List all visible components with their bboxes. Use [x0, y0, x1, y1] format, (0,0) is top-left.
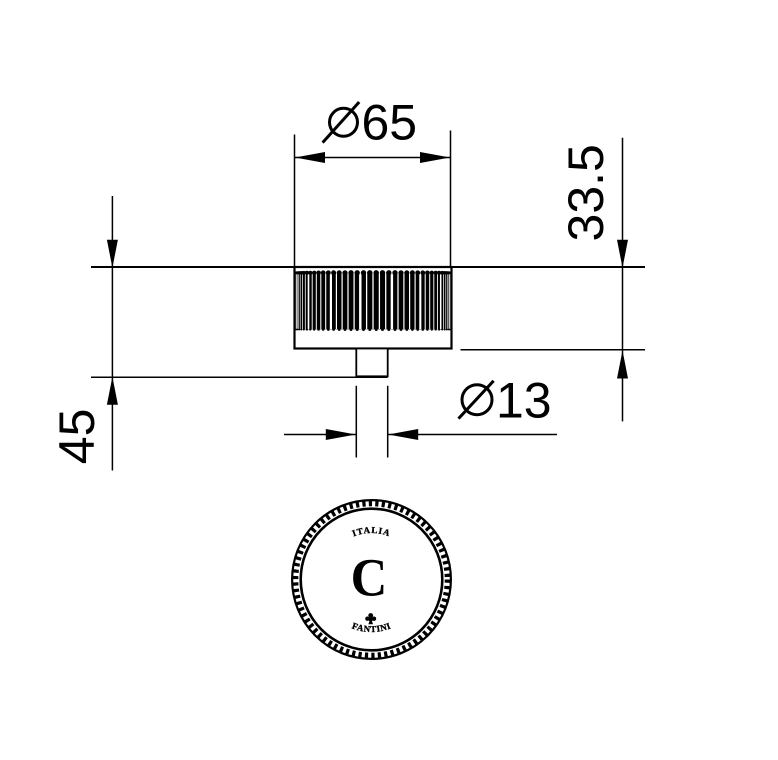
diameter symbol for 13 — [459, 381, 494, 419]
svg-text:33.5: 33.5 — [558, 144, 614, 241]
dimension 13 line right part — [388, 429, 557, 440]
dimension 45 line — [107, 196, 118, 471]
logo text ITALIA (arched top) — [350, 525, 394, 539]
dimension 33.5 line — [617, 138, 628, 422]
logo text FANTINI (arched bottom) — [345, 621, 398, 635]
extension line right for 65 — [450, 131, 452, 268]
bottom view knurl teeth ring — [296, 504, 448, 656]
cap body outline (side view) — [295, 267, 452, 349]
dimension 13 line left part — [284, 429, 356, 440]
extension line right for 13 — [387, 386, 389, 458]
dimension 65 line — [295, 152, 451, 163]
diameter symbol for 65 — [323, 102, 360, 143]
svg-text:65: 65 — [362, 95, 418, 151]
logo flower ornament — [365, 613, 376, 624]
bottom view inner circle — [301, 509, 443, 651]
extension line left for 13 — [355, 386, 357, 458]
bottom view outer circle — [292, 500, 451, 659]
svg-text:13: 13 — [496, 373, 552, 429]
stem (side view) — [356, 349, 387, 377]
reference line right at cap bottom — [461, 349, 646, 351]
svg-text:C: C — [351, 548, 388, 608]
knurl band — [295, 270, 452, 331]
svg-text:45: 45 — [49, 409, 105, 465]
lower reference line left — [91, 376, 388, 378]
logo letter C — [351, 548, 388, 608]
top reference line — [91, 266, 645, 268]
extension line left for 65 — [294, 135, 296, 268]
